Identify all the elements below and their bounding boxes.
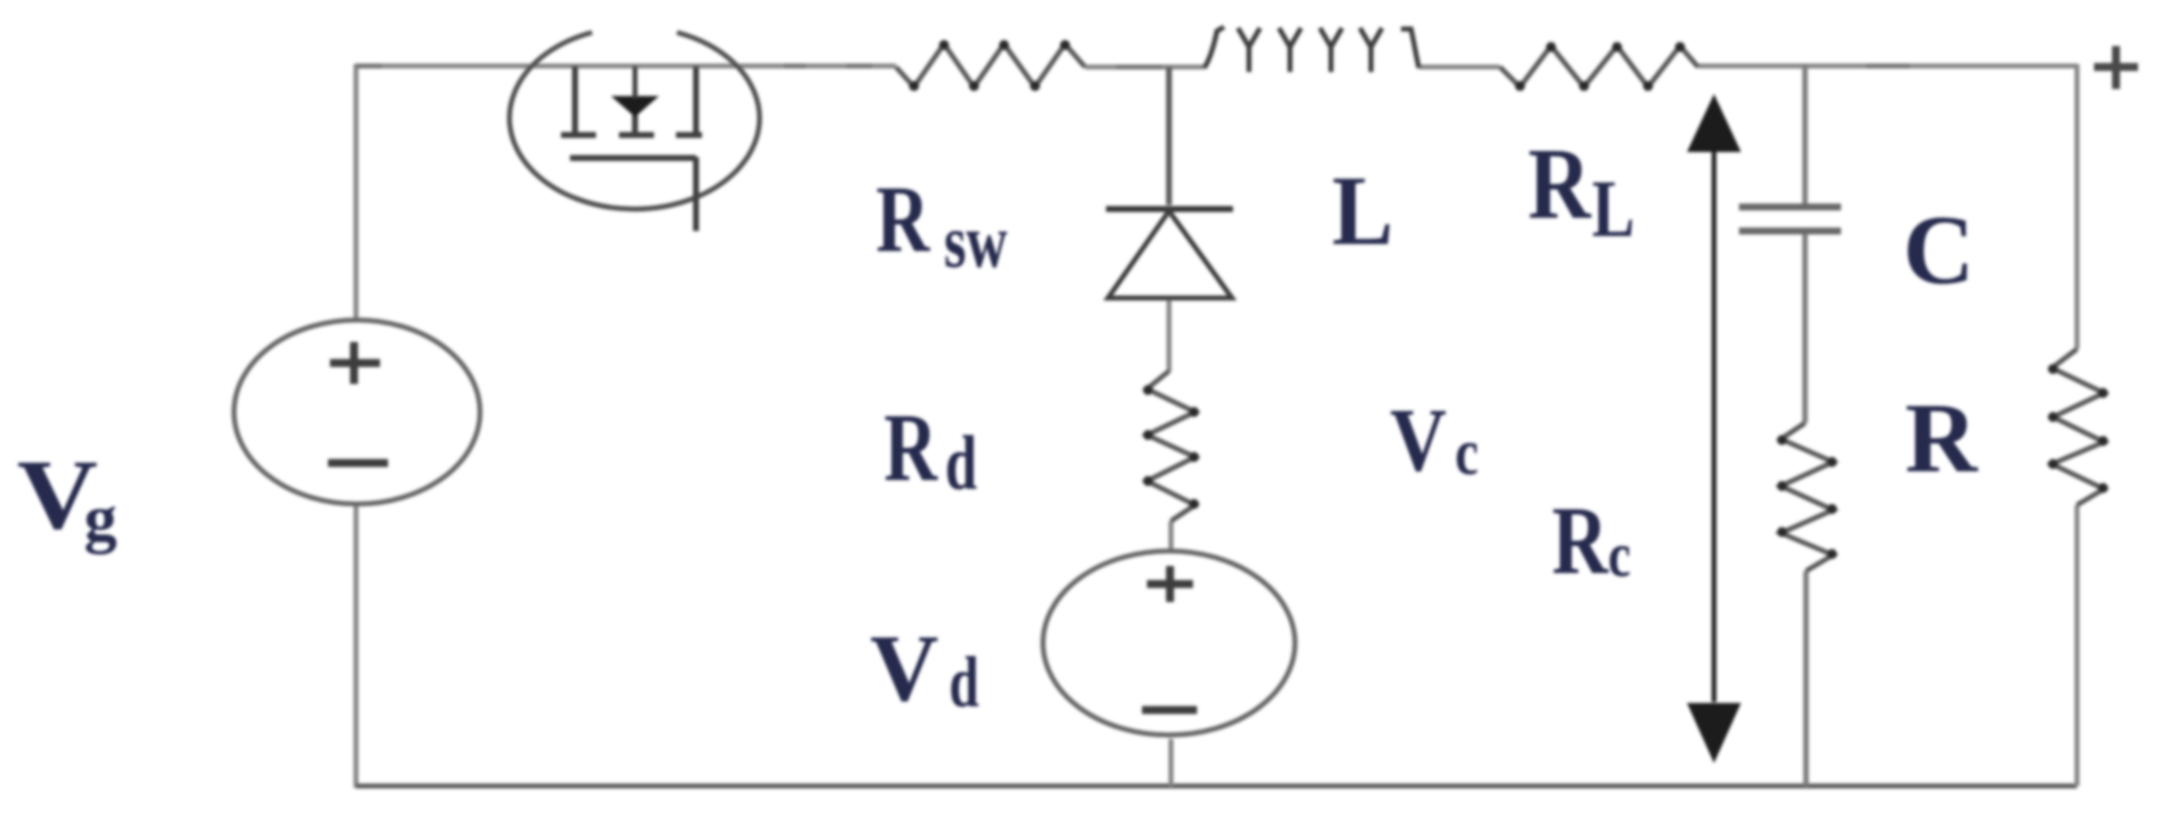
svg-text:c: c: [1455, 415, 1478, 488]
svg-text:c: c: [1608, 519, 1631, 591]
svg-text:L: L: [1332, 154, 1393, 265]
svg-text:L: L: [1592, 162, 1635, 253]
svg-text:g: g: [84, 482, 117, 555]
svg-text:V: V: [1390, 391, 1447, 490]
svg-text:R: R: [884, 393, 938, 501]
svg-text:R: R: [1905, 382, 1979, 493]
svg-text:d: d: [945, 420, 977, 506]
svg-text:sw: sw: [944, 199, 1008, 284]
svg-text:C: C: [1903, 196, 1975, 305]
svg-text:V: V: [870, 615, 939, 721]
svg-text:R: R: [1528, 129, 1592, 241]
svg-text:R: R: [1552, 487, 1609, 594]
svg-text:d: d: [949, 642, 979, 722]
svg-text:R: R: [876, 167, 931, 272]
